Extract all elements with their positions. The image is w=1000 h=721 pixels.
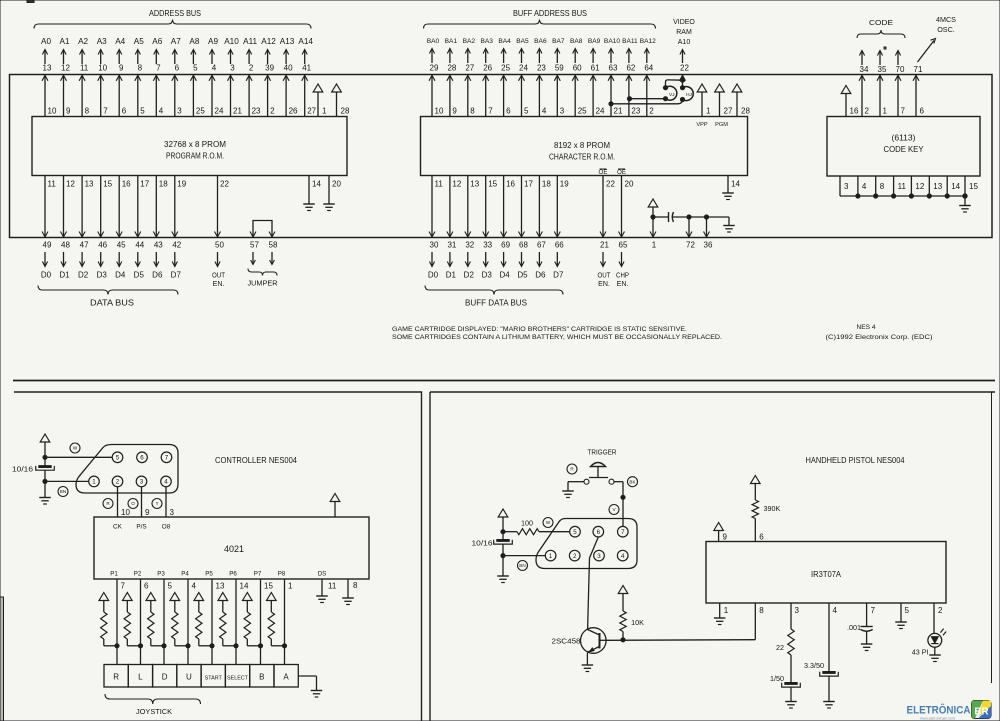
svg-text:22: 22 <box>680 64 689 73</box>
svg-text:100: 100 <box>521 519 533 528</box>
svg-text:1: 1 <box>706 107 711 116</box>
svg-text:19: 19 <box>177 180 186 189</box>
svg-text:8: 8 <box>353 581 358 590</box>
resistor 10K with power <box>618 586 644 640</box>
svg-text:L: L <box>138 673 143 682</box>
svg-text:2: 2 <box>249 64 254 73</box>
svg-text:8192 x 8 PROM: 8192 x 8 PROM <box>554 140 610 150</box>
net BD3 (CHAR ROM pin 15 to cart pin 33) <box>482 176 498 280</box>
ground below C4 <box>785 702 797 709</box>
resistor 22 on pin 3 <box>776 603 800 682</box>
svg-text:70: 70 <box>896 65 905 74</box>
svg-text:RAM: RAM <box>676 29 692 36</box>
signal label BN (brown wire) <box>58 487 68 497</box>
svg-text:P7: P7 <box>254 571 262 578</box>
svg-text:A13: A13 <box>280 37 295 46</box>
svg-text:6: 6 <box>122 107 127 116</box>
power pin 16 of CODE KEY <box>841 86 859 117</box>
svg-text:2: 2 <box>573 553 577 560</box>
net A6 (cart pin 7 to PROM pin 4) <box>152 37 164 117</box>
wire 4021 pin P5 to switch START <box>211 579 213 665</box>
svg-text:CODE KEY: CODE KEY <box>884 144 924 154</box>
svg-text:65: 65 <box>619 241 628 250</box>
svg-text:TRIGGER: TRIGGER <box>588 448 617 457</box>
ground below capacitor C2 <box>39 479 51 504</box>
svg-text:72: 72 <box>686 241 695 250</box>
net CHIP EN (CHAR ROM pin OE 20 to cart pin 65) <box>616 169 634 288</box>
push switch A <box>274 665 298 688</box>
svg-text:21: 21 <box>600 241 609 250</box>
net OUT EN (CHAR ROM pin OE 22 to cart pin 21) <box>598 169 616 288</box>
net A11 (cart pin 2 to PROM pin 23) <box>243 37 261 117</box>
svg-text:6: 6 <box>140 455 144 462</box>
svg-text:BA8: BA8 <box>570 38 583 45</box>
capacitor C1 decoupling <box>653 212 729 222</box>
wire net 36 <box>704 215 713 250</box>
jumper VJ (A10 to CHAR ROM pin 23) <box>609 80 683 106</box>
svg-text:4: 4 <box>833 606 838 615</box>
svg-text:1: 1 <box>288 582 293 591</box>
svg-text:11: 11 <box>898 182 907 191</box>
svg-text:3: 3 <box>230 64 235 73</box>
svg-text:START: START <box>205 676 223 682</box>
svg-text:68: 68 <box>519 241 528 250</box>
svg-text:OSC.: OSC. <box>937 25 955 34</box>
J2 pin 6 <box>593 526 604 537</box>
net A12 (cart pin 39 to PROM pin 2) <box>261 37 276 117</box>
svg-text:JOYSTICK: JOYSTICK <box>136 707 172 716</box>
wire pin 8 of IR3T07A <box>755 603 764 640</box>
IC U2 8192 x 8 PROM CHARACTER R.O.M. <box>421 117 748 176</box>
svg-text:VPP: VPP <box>696 122 707 128</box>
net BA0 (cart pin 29 to CHAR ROM pin 10) <box>427 38 444 117</box>
svg-text:14: 14 <box>951 182 960 191</box>
svg-text:13: 13 <box>216 582 225 591</box>
svg-text:BN: BN <box>519 563 525 568</box>
svg-text:7: 7 <box>165 455 169 462</box>
net CODE 34 (CODE KEY pin 2) <box>859 51 870 117</box>
svg-text:A6: A6 <box>152 37 162 46</box>
pull-up resistor with power on 4021 pin P1 <box>99 571 126 648</box>
svg-text:4MCS: 4MCS <box>936 15 956 24</box>
svg-text:2: 2 <box>116 479 120 486</box>
svg-text:DATA BUS: DATA BUS <box>90 298 135 308</box>
data bus brace and label DATA BUS <box>38 286 178 308</box>
wire 4021 pin P4 to switch U <box>187 579 189 665</box>
svg-text:6: 6 <box>144 582 149 591</box>
svg-text:27: 27 <box>724 107 733 116</box>
pull-up resistor with power on 4021 pin P7 <box>243 571 274 648</box>
svg-text:28: 28 <box>341 107 350 116</box>
net BA6 (cart pin 23 to CHAR ROM pin 4) <box>534 38 547 117</box>
svg-text:A2: A2 <box>78 37 88 46</box>
svg-text:11: 11 <box>435 180 444 189</box>
wire J1 pin3 to 4021 P/S pin 9 <box>142 487 151 517</box>
wire J1 pin2 to 4021 CK pin 10 <box>118 487 131 517</box>
svg-text:1: 1 <box>92 479 96 486</box>
net BA1 (cart pin 28 to CHAR ROM pin 9) <box>445 38 458 117</box>
net A1 (cart pin 12 to PROM pin 9) <box>59 37 71 117</box>
net BA12 (cart pin 64 to CHAR ROM pin 2) <box>640 38 656 117</box>
signal label BN (pistol brown wire) <box>518 561 528 571</box>
svg-text:P8: P8 <box>278 571 286 578</box>
svg-text:1: 1 <box>883 107 888 116</box>
svg-text:7: 7 <box>871 606 876 615</box>
svg-text:Y: Y <box>155 501 158 506</box>
push switch U <box>177 665 201 688</box>
horizontal divider line <box>13 380 995 382</box>
svg-text:44: 44 <box>135 241 144 250</box>
net A9 (cart pin 4 to PROM pin 24) <box>208 37 224 117</box>
svg-text:ELETRÔNICA: ELETRÔNICA <box>907 704 971 717</box>
svg-text:A3: A3 <box>97 37 107 46</box>
svg-text:BA10: BA10 <box>604 38 620 45</box>
svg-text:1: 1 <box>724 606 729 615</box>
svg-text:25: 25 <box>501 64 510 73</box>
svg-text:D2: D2 <box>464 271 475 280</box>
svg-text:7: 7 <box>901 107 906 116</box>
svg-text:6: 6 <box>175 64 180 73</box>
svg-text:IR3T07A: IR3T07A <box>811 569 841 579</box>
svg-text:3: 3 <box>177 107 182 116</box>
svg-text:28: 28 <box>447 64 456 73</box>
svg-text:D6: D6 <box>535 271 546 280</box>
svg-text:5: 5 <box>524 107 529 116</box>
svg-text:3: 3 <box>170 508 175 517</box>
svg-text:BA1: BA1 <box>445 38 458 45</box>
svg-text:BA6: BA6 <box>534 38 547 45</box>
J2 pin 3 <box>594 550 605 561</box>
label 4MCS OSC with arrow <box>918 15 957 62</box>
J2 pin 1 <box>545 550 556 561</box>
svg-text:10K: 10K <box>631 618 644 627</box>
ground for decoupling capacitor <box>723 217 735 232</box>
svg-text:25: 25 <box>196 107 205 116</box>
ground DS pin 11 of 4021 <box>316 571 337 603</box>
svg-text:BA12: BA12 <box>640 38 656 45</box>
net A13 (cart pin 40 to PROM pin 26) <box>280 37 298 117</box>
svg-text:8: 8 <box>85 107 90 116</box>
svg-text:A4: A4 <box>115 37 125 46</box>
net A4 (cart pin 9 to PROM pin 6) <box>115 37 127 117</box>
svg-text:2SC458: 2SC458 <box>552 637 581 646</box>
svg-text:P/S: P/S <box>136 524 146 531</box>
svg-text:D3: D3 <box>482 271 493 280</box>
svg-text:A1: A1 <box>59 37 69 46</box>
left panel border <box>14 392 422 721</box>
buff data bus brace and label BUFF DATA BUS <box>425 286 563 308</box>
svg-text:O: O <box>131 501 135 506</box>
power net cart pin 1 with decoupling <box>648 199 658 250</box>
svg-text:A14: A14 <box>298 37 313 46</box>
svg-text:390K: 390K <box>764 504 781 513</box>
svg-text:BN: BN <box>60 489 66 494</box>
net D4 (PROM pin 16 to cart pin 45) <box>115 176 131 280</box>
svg-text:P5: P5 <box>205 571 213 578</box>
signal label BK (black wire) <box>628 477 638 487</box>
svg-text:4: 4 <box>862 182 867 191</box>
net A3 (cart pin 10 to PROM pin 7) <box>97 37 109 117</box>
signal label R (red wire) <box>103 499 113 509</box>
svg-text:71: 71 <box>914 65 923 74</box>
svg-text:2: 2 <box>865 107 870 116</box>
wire to J2 pin 1 <box>501 554 545 558</box>
wire 4021 pin P6 to switch SELECT <box>235 579 237 665</box>
svg-text:58: 58 <box>269 241 278 250</box>
svg-text:CHP: CHP <box>616 273 629 280</box>
net D6 (PROM pin 18 to cart pin 43) <box>152 176 168 280</box>
signal label V (violet wire) <box>609 505 619 515</box>
net A7 (cart pin 6 to PROM pin 3) <box>171 37 183 117</box>
net BA4 (cart pin 25 to CHAR ROM pin 6) <box>498 38 511 117</box>
svg-text:22: 22 <box>220 180 229 189</box>
svg-text:5: 5 <box>573 529 577 536</box>
svg-text:R: R <box>113 673 119 682</box>
wire 4021 pin P2 to switch L <box>140 579 142 665</box>
svg-text:A8: A8 <box>189 37 199 46</box>
svg-text:50: 50 <box>215 241 224 250</box>
svg-text:A12: A12 <box>261 37 276 46</box>
wire Q1 collector to IR3T07A pin 8 <box>606 638 755 642</box>
svg-text:P3: P3 <box>157 571 165 578</box>
push switch D <box>153 665 177 688</box>
wire 4021 pin P7 to switch B <box>260 579 262 665</box>
net BD0 (CHAR ROM pin 11 to cart pin 30) <box>428 176 443 280</box>
svg-text:BUFF ADDRESS BUS: BUFF ADDRESS BUS <box>513 8 587 18</box>
svg-text:A10: A10 <box>678 39 691 46</box>
pull-up resistor with power on 4021 pin P8 <box>267 571 294 648</box>
net BD5 (CHAR ROM pin 17 to cart pin 68) <box>517 176 533 280</box>
svg-text:24: 24 <box>519 64 528 73</box>
svg-text:A7: A7 <box>171 37 181 46</box>
svg-text:12: 12 <box>915 182 924 191</box>
svg-text:OE: OE <box>599 169 608 176</box>
J1 pin 1 <box>89 476 100 487</box>
svg-text:A0: A0 <box>41 37 51 46</box>
net D3 (PROM pin 15 to cart pin 46) <box>97 176 113 280</box>
svg-text:6: 6 <box>759 533 764 542</box>
svg-text:W: W <box>546 520 551 525</box>
svg-text:20: 20 <box>332 180 341 189</box>
svg-text:4: 4 <box>192 582 197 591</box>
J1 pin 4 <box>161 476 172 487</box>
svg-text:26: 26 <box>483 64 492 73</box>
svg-text:12: 12 <box>61 64 70 73</box>
svg-text:9: 9 <box>66 107 71 116</box>
svg-text:P2: P2 <box>134 571 142 578</box>
svg-text:61: 61 <box>591 64 600 73</box>
net D1 (PROM pin 12 to cart pin 48) <box>59 176 75 280</box>
capacitor C4 1/50 electrolytic <box>770 674 800 701</box>
svg-text:10: 10 <box>435 107 444 116</box>
svg-text:35: 35 <box>878 65 887 74</box>
svg-text:D4: D4 <box>499 271 510 280</box>
wire J2 pin 6 to transistor collector <box>588 537 599 630</box>
CODE KEY bottom pins 3 4 8 11 12 13 14 15 common rail <box>840 176 978 198</box>
svg-text:16: 16 <box>850 107 859 116</box>
svg-text:P1: P1 <box>110 571 118 578</box>
ground of CODE KEY rail <box>959 194 971 212</box>
svg-text:13: 13 <box>85 180 94 189</box>
signal label R (trigger red wire) <box>567 464 577 474</box>
push switch TRIGGER <box>584 463 614 485</box>
net D0 (PROM pin 11 to cart pin 49) <box>41 176 56 280</box>
svg-text:20: 20 <box>625 180 634 189</box>
svg-text:14: 14 <box>731 180 740 189</box>
label copyright (C)1992 Electronix Corp. (EDC) <box>826 334 933 341</box>
buff address bus brace and label BUFF ADDRESS BUS <box>424 8 656 29</box>
svg-text:9: 9 <box>452 107 457 116</box>
svg-text:24: 24 <box>596 107 605 116</box>
svg-text:21: 21 <box>614 107 623 116</box>
net BA10 (cart pin 63 to CHAR ROM pin 21) <box>604 38 623 117</box>
signal label Y (yellow wire) <box>152 499 162 509</box>
svg-text:9: 9 <box>119 64 124 73</box>
svg-text:B: B <box>259 673 264 682</box>
wire net 72 <box>686 215 695 250</box>
pull-up resistor with power on 4021 pin P5 <box>194 571 225 648</box>
svg-text:18: 18 <box>542 180 551 189</box>
svg-text:10: 10 <box>98 64 107 73</box>
signal label W (pistol white wire) <box>543 518 553 528</box>
svg-text:10/16: 10/16 <box>472 539 493 548</box>
svg-text:43: 43 <box>154 241 163 250</box>
jumper brace and label JUMPER <box>248 269 278 288</box>
svg-text:OUT: OUT <box>212 273 226 280</box>
svg-text:BA7: BA7 <box>552 38 565 45</box>
svg-text:40: 40 <box>284 64 293 73</box>
push switch SELECT <box>225 665 249 688</box>
svg-text:15: 15 <box>264 582 273 591</box>
svg-text:23: 23 <box>631 107 640 116</box>
svg-text:17: 17 <box>140 180 149 189</box>
svg-text:25: 25 <box>578 107 587 116</box>
pull-up resistor with power on 4021 pin P4 <box>170 571 197 648</box>
svg-text:D7: D7 <box>171 271 182 280</box>
svg-text:2: 2 <box>649 107 654 116</box>
svg-text:D3: D3 <box>97 271 108 280</box>
svg-text:49: 49 <box>43 241 52 250</box>
svg-text:BA5: BA5 <box>516 38 529 45</box>
net BD6 (CHAR ROM pin 18 to cart pin 67) <box>535 176 551 280</box>
ground pin 20 of PROM <box>323 176 341 211</box>
svg-text:1/50: 1/50 <box>770 674 784 683</box>
svg-text:BK: BK <box>629 479 636 484</box>
ground below C6 <box>861 644 873 651</box>
svg-text:29: 29 <box>430 64 439 73</box>
J1 pin 5 <box>112 452 123 463</box>
push switch B <box>250 665 274 688</box>
svg-text:DS: DS <box>318 571 327 578</box>
svg-text:48: 48 <box>61 241 70 250</box>
net D7 (PROM pin 19 to cart pin 42) <box>171 176 187 280</box>
svg-text:BA0: BA0 <box>427 38 440 45</box>
net BA5 (cart pin 24 to CHAR ROM pin 5) <box>516 38 529 117</box>
IC U3 (6113) CODE KEY <box>827 117 980 177</box>
svg-text:34: 34 <box>860 65 869 74</box>
svg-text:D1: D1 <box>59 271 70 280</box>
svg-text:39: 39 <box>265 64 274 73</box>
ground below LED <box>929 647 941 661</box>
J2 pin 7 <box>618 526 629 537</box>
svg-text:23: 23 <box>537 64 546 73</box>
svg-text:67: 67 <box>537 241 546 250</box>
label HANDHELD PISTOL NES004 <box>806 455 905 465</box>
svg-text:5: 5 <box>116 455 120 462</box>
capacitor C6 .001 on pin 7 <box>847 603 876 644</box>
svg-text:.001: .001 <box>847 623 861 632</box>
svg-text:12: 12 <box>66 180 75 189</box>
svg-text:7: 7 <box>488 107 493 116</box>
power V+ for controller cap <box>40 434 50 466</box>
ground pin 8 of 4021 <box>342 579 358 605</box>
power pin of 4021 <box>330 494 340 518</box>
svg-text:A11: A11 <box>243 37 257 46</box>
svg-text:14: 14 <box>240 582 249 591</box>
svg-text:6: 6 <box>506 107 511 116</box>
net A14 (cart pin 41 to PROM pin 27) <box>298 37 316 117</box>
svg-text:24: 24 <box>215 107 224 116</box>
svg-text:7: 7 <box>121 582 126 591</box>
svg-text:W: W <box>73 446 78 451</box>
net CODE 35 (CODE KEY pin 1) <box>877 51 888 117</box>
net BD2 (CHAR ROM pin 13 to cart pin 32) <box>464 176 480 280</box>
svg-text:66: 66 <box>555 241 564 250</box>
capacitor C5 3.3/50 electrolytic on pin 4 <box>804 603 838 701</box>
svg-text:41: 41 <box>302 64 311 73</box>
svg-text:U: U <box>186 673 192 682</box>
net A2 (cart pin 11 to PROM pin 8) <box>78 37 90 117</box>
svg-text:CODE: CODE <box>869 18 893 27</box>
svg-text:5: 5 <box>140 107 145 116</box>
svg-text:HJ: HJ <box>686 92 692 98</box>
svg-text:23: 23 <box>252 107 261 116</box>
ground pin 14 of PROM <box>303 176 321 211</box>
svg-text:32768 x 8 PROM: 32768 x 8 PROM <box>164 139 226 149</box>
svg-text:1: 1 <box>549 553 553 560</box>
svg-text:62: 62 <box>626 64 635 73</box>
svg-text:1: 1 <box>652 241 657 250</box>
svg-text:2: 2 <box>938 606 943 615</box>
wire trigger to J2 pin 7 <box>614 482 625 527</box>
net BA3 (cart pin 26 to CHAR ROM pin 7) <box>480 38 493 117</box>
push switch START <box>201 665 225 688</box>
push switch R <box>104 665 128 688</box>
address bus brace and label ADDRESS BUS <box>34 8 311 29</box>
svg-text:22: 22 <box>606 180 615 189</box>
svg-text:D0: D0 <box>41 271 52 280</box>
svg-text:21: 21 <box>233 107 242 116</box>
push switch L <box>128 665 152 688</box>
svg-text:8: 8 <box>470 107 475 116</box>
svg-text:27: 27 <box>465 64 474 73</box>
pull-up resistor with power on 4021 pin P6 <box>218 571 249 648</box>
svg-text:VIDEO: VIDEO <box>673 19 695 26</box>
label NES 4 <box>856 324 875 331</box>
svg-text:15: 15 <box>488 180 497 189</box>
svg-text:BR: BR <box>974 707 988 718</box>
svg-text:5: 5 <box>168 582 173 591</box>
ground pin 5 of IR3T07A <box>895 603 909 629</box>
svg-text:3.3/50: 3.3/50 <box>804 661 824 670</box>
wire 4021 pin P3 to switch D <box>163 579 165 665</box>
svg-text:17: 17 <box>524 180 533 189</box>
svg-text:3: 3 <box>140 479 144 486</box>
ground pin 14 of CHAR ROM <box>722 176 740 200</box>
net BA2 (cart pin 27 to CHAR ROM pin 8) <box>463 38 476 117</box>
watermark ELETRONICA BR logo <box>907 701 992 721</box>
svg-text:3: 3 <box>597 553 601 560</box>
